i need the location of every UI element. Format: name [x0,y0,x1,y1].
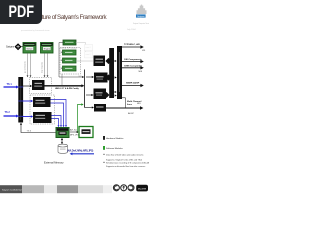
svg-text:CMIS Compatible: CMIS Compatible [124,64,143,67]
svg-text:OSI Components: OSI Components [124,58,143,61]
svg-text:Satyam Confidential: Satyam Confidential [2,188,22,191]
svg-text:map requests: map requests [41,62,44,73]
svg-text:Server: Server [27,49,33,51]
svg-text:x.25 & TCP connect: x.25 & TCP connect [61,47,77,50]
svg-text:Supports 2 Digital Trunks (TS1: Supports 2 Digital Trunks (TS1 and TS2) [106,158,142,161]
svg-text:TS 2: TS 2 [5,111,11,114]
svg-text:SNMP, ADSP: SNMP, ADSP [126,81,140,84]
svg-text:Data flow of both video and au: Data flow of both video and audio stream… [106,153,143,156]
svg-text:conn 1: conn 1 [86,47,91,49]
svg-text:TS 3: TS 3 [27,130,32,132]
svg-text:Hardware Modules: Hardware Modules [106,137,123,140]
svg-text:presentation by framework team: presentation by framework team [21,29,50,32]
svg-text:Satyam: Satyam [137,15,145,18]
svg-text:TCP/HDLC, AIX: TCP/HDLC, AIX [124,43,140,46]
svg-text:lines: lines [127,104,133,106]
svg-text:TS 1: TS 1 [7,83,13,86]
svg-text:Engine: Engine [44,49,51,51]
svg-text:conn 2: conn 2 [86,54,91,56]
svg-text:AVI, SxL: AVI, SxL [70,129,77,132]
svg-text:External Memory: External Memory [44,160,64,164]
svg-text:Mar4/98: Mar4/98 [138,187,147,190]
svg-text:HMS 2.17 & A.DN Caddy: HMS 2.17 & A.DN Caddy [55,87,80,90]
svg-text:July 2004: July 2004 [127,29,136,31]
svg-text:(AVI, DivX, MPx), MP3, JPG): (AVI, DivX, MPx), MP3, JPG) [67,150,94,153]
svg-text:PDF: PDF [9,3,35,21]
svg-text:ADSP: ADSP [128,112,134,115]
svg-text:Supports multi-media files fro: Supports multi-media files from disc sou… [106,165,145,168]
svg-text:Simultaneous recording of N co: Simultaneous recording of N computers (D… [106,162,149,165]
svg-text:MP3, JPG: MP3, JPG [70,134,79,136]
svg-text:Software Modules: Software Modules [106,147,123,150]
svg-text:gui commands: gui commands [25,61,27,73]
